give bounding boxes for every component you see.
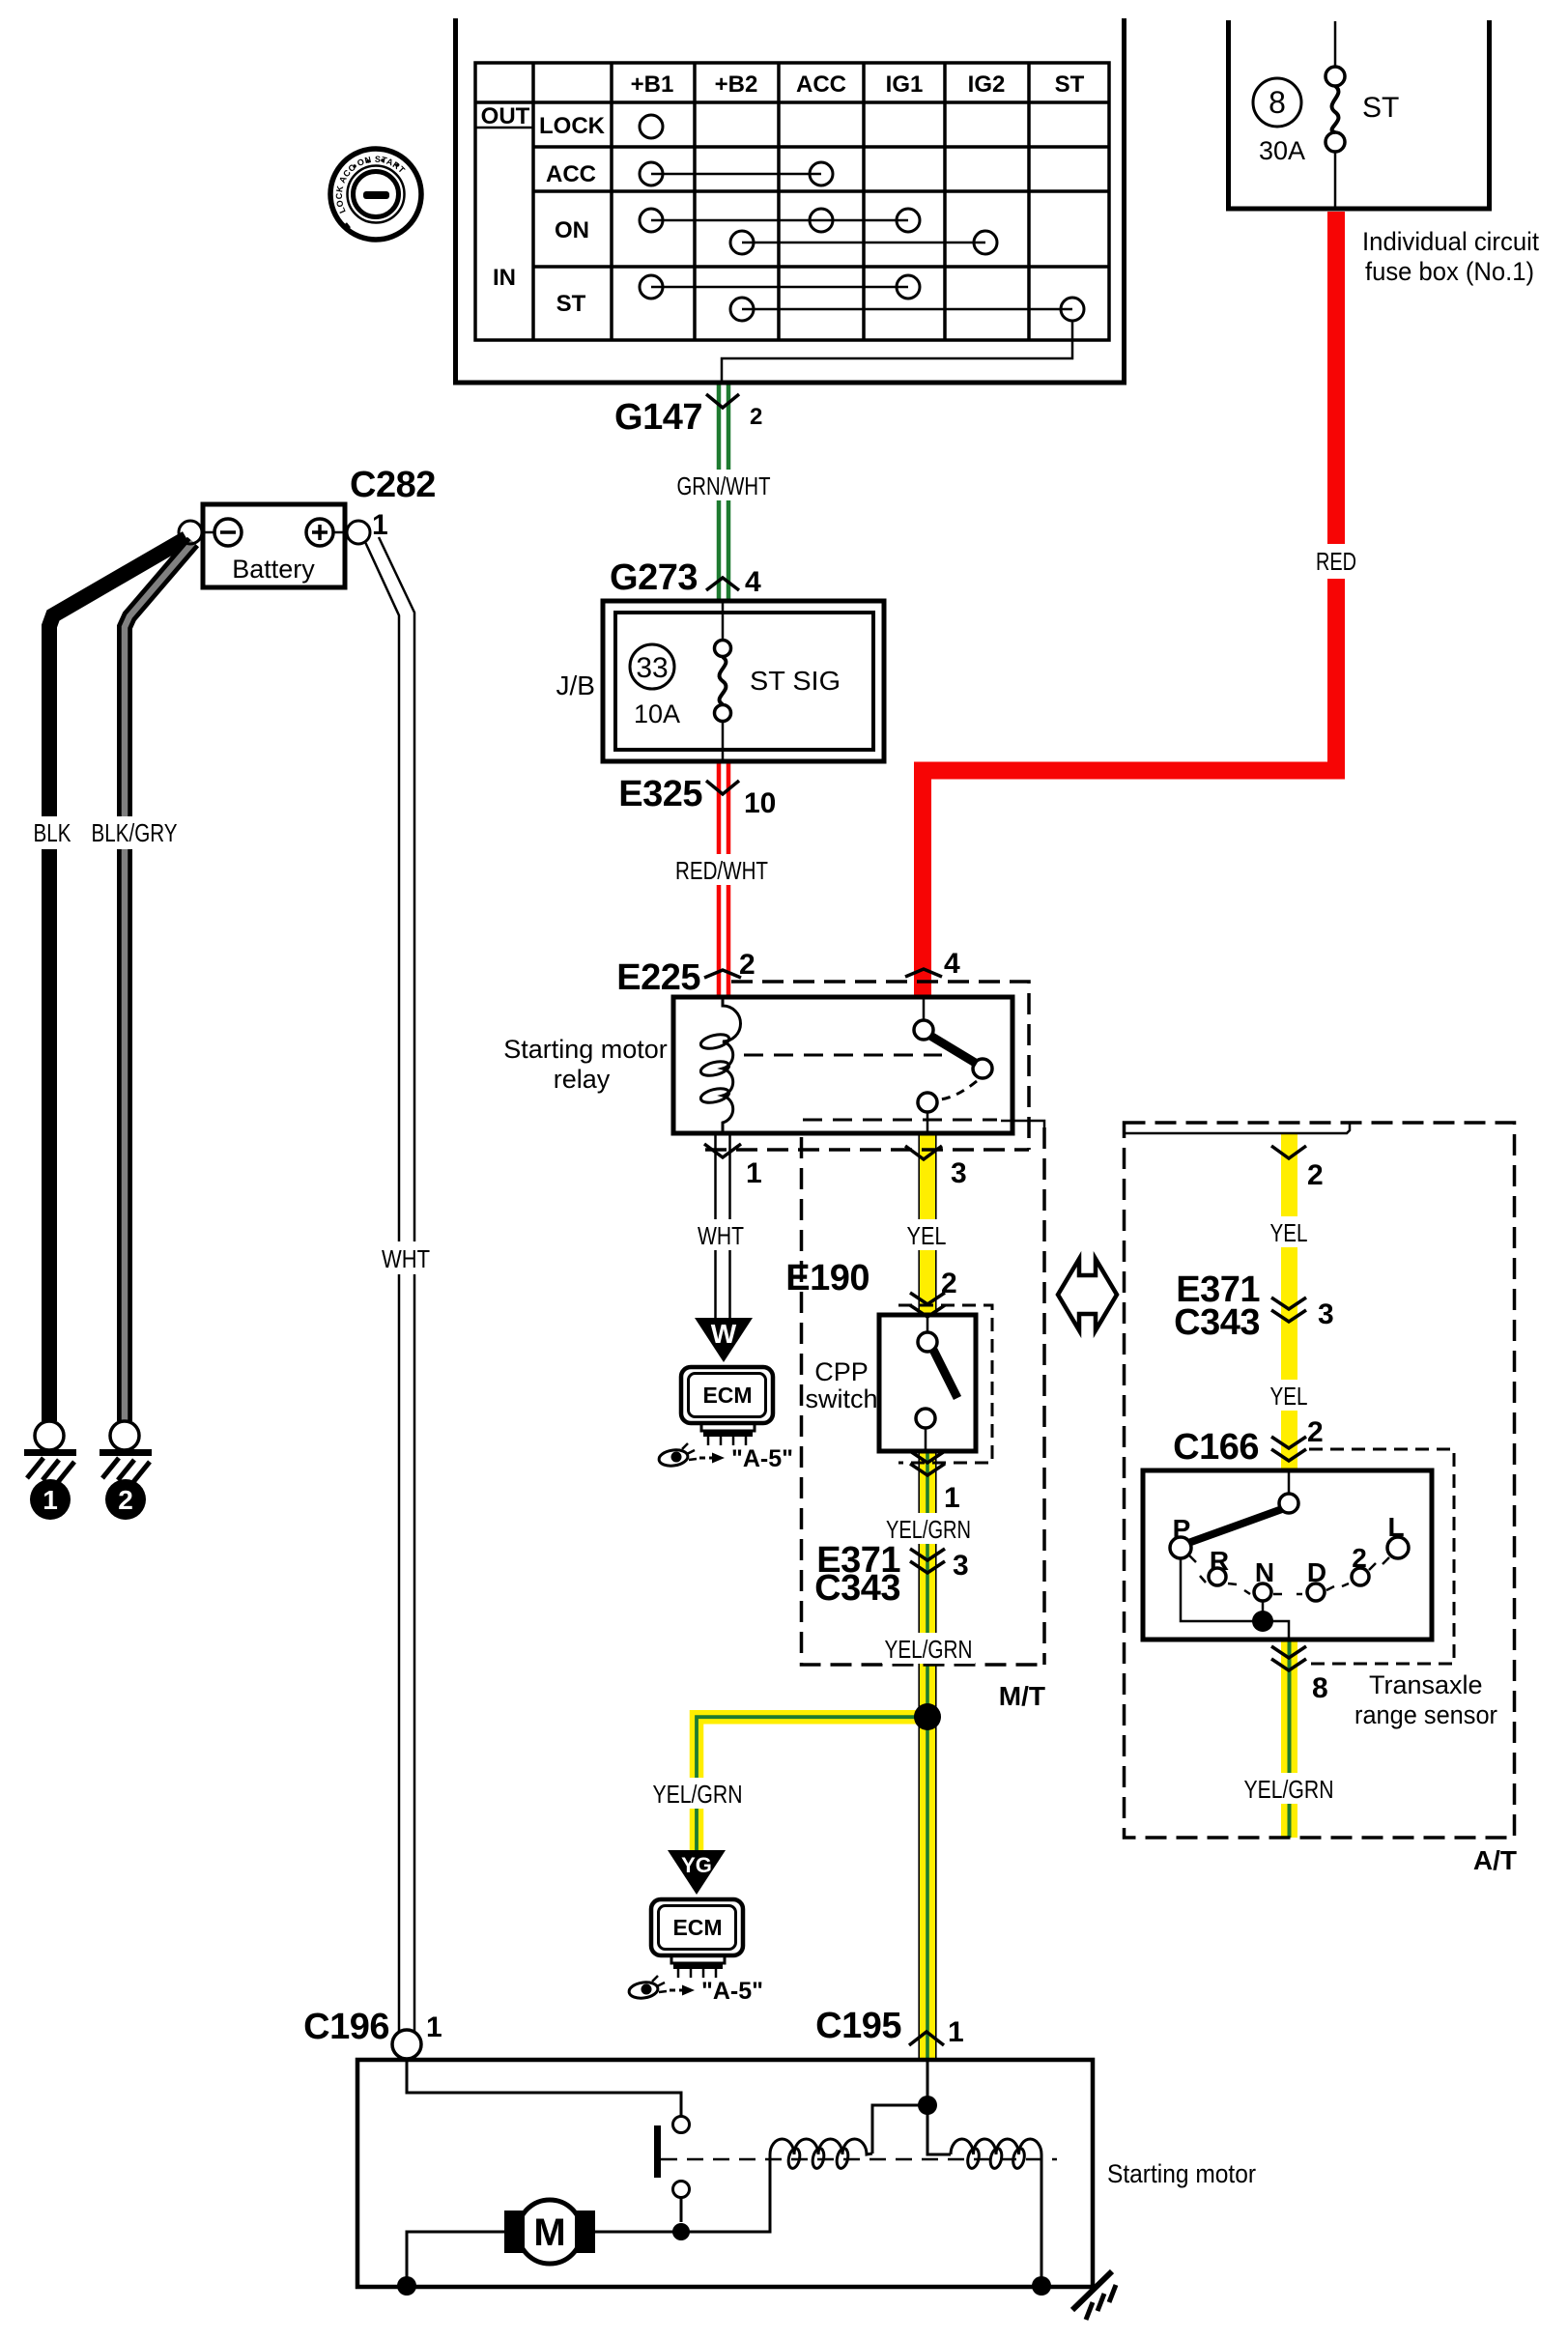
connector pin 2 (A/T top) [1271, 1146, 1324, 1191]
label RED/WHT [669, 854, 777, 885]
svg-text:M/T: M/T [999, 1681, 1045, 1711]
connector C195 pin 1 [815, 2006, 964, 2048]
svg-text:Individual circuit: Individual circuit [1362, 227, 1539, 256]
label YEL (A/T lower) [1262, 1380, 1318, 1411]
connector E190 pin 2 [785, 1258, 956, 1317]
svg-text:ON: ON [555, 217, 589, 243]
wire C196 into solenoid contact [407, 2059, 681, 2117]
svg-text:C282: C282 [350, 465, 436, 505]
svg-text:3: 3 [1318, 1298, 1334, 1330]
wire motor right to coils [595, 2154, 770, 2232]
connector E325 pin 10 [618, 774, 776, 819]
svg-text:IN: IN [493, 265, 516, 291]
svg-text:YEL/GRN: YEL/GRN [653, 1780, 743, 1809]
svg-text:YEL/GRN: YEL/GRN [1244, 1775, 1334, 1804]
wire pull-in coil to junction [872, 2105, 927, 2154]
relay switch contacts [914, 997, 992, 1133]
contact circles ACC row [640, 162, 663, 185]
svg-text:IG1: IG1 [886, 71, 924, 98]
svg-text:1: 1 [372, 509, 388, 541]
svg-text:33: 33 [636, 652, 668, 684]
svg-text:R: R [1210, 1546, 1229, 1576]
label YEL (A/T) [1262, 1216, 1318, 1247]
label WHT [693, 1219, 751, 1250]
label YEL (M/T) [899, 1219, 955, 1250]
contact link lines [651, 174, 1072, 309]
wire YEL/GRN (CPP switch to junction to C195) [919, 1452, 936, 2060]
eye A-5 reference (upper) [658, 1443, 793, 1472]
solenoid upper contact [673, 2117, 690, 2133]
svg-text:OUT: OUT [481, 103, 530, 129]
svg-text:ECM: ECM [702, 1383, 752, 1408]
svg-text:RED: RED [1316, 547, 1356, 576]
svg-text:2: 2 [1352, 1543, 1367, 1573]
svg-text:2: 2 [750, 404, 762, 430]
connector pin 8 [1271, 1646, 1328, 1704]
svg-text:"A-5": "A-5" [701, 1978, 763, 2005]
arrow YG to ECM [668, 1850, 726, 1895]
svg-text:2: 2 [1307, 1159, 1324, 1191]
svg-text:C195: C195 [815, 2006, 901, 2046]
svg-text:WHT: WHT [698, 1221, 744, 1250]
table row labels [481, 103, 606, 317]
ground 2 [100, 1421, 152, 1520]
svg-text:J/B: J/B [556, 670, 595, 700]
svg-text:ST: ST [556, 291, 586, 317]
svg-text:YEL/GRN: YEL/GRN [885, 1635, 973, 1664]
svg-text:D: D [1307, 1557, 1326, 1587]
connector C196 pin 1 [303, 2007, 442, 2059]
arrow W to ECM [695, 1318, 753, 1362]
ignition key cylinder symbol [330, 149, 421, 240]
wire hold-in coil to ground bus [1041, 2154, 1043, 2286]
relay internal dashed link [744, 1054, 942, 1057]
pull-in coil [770, 2139, 872, 2169]
double arrow symbol M/T A/T [1058, 1259, 1117, 1330]
wire YEL (relay pin 3 to CPP switch) [919, 1133, 936, 1315]
eye A-5 reference (lower) [628, 1976, 763, 2005]
connector G273 pin 4 [610, 557, 761, 598]
svg-text:30A: 30A [1259, 136, 1305, 165]
svg-text:YEL: YEL [1270, 1218, 1308, 1247]
fuse 8 30A ST [1253, 21, 1399, 209]
wire WHT relay pin 1 to ECM [716, 1133, 730, 1318]
sensor internal wiring [1181, 1558, 1289, 1640]
svg-text:G147: G147 [614, 397, 702, 438]
svg-text:8: 8 [1269, 85, 1286, 120]
svg-text:YEL: YEL [1270, 1382, 1308, 1411]
E190 connector dashed boundary [898, 1305, 992, 1463]
wire RED/WHT (E325 to relay pin 2) [719, 761, 728, 997]
svg-text:2: 2 [739, 949, 755, 981]
hold-in coil [951, 2139, 1041, 2169]
junction dot bottom left [397, 2276, 416, 2296]
svg-text:GRN/WHT: GRN/WHT [677, 471, 771, 500]
contact circles ON row [640, 209, 663, 232]
wire entry line (A/T top) [1124, 1123, 1350, 1133]
svg-text:E325: E325 [618, 774, 702, 814]
svg-text:fuse box (No.1): fuse box (No.1) [1365, 257, 1534, 286]
svg-text:W: W [711, 1319, 737, 1349]
label WHT (battery wire) [377, 1241, 437, 1274]
svg-text:1: 1 [746, 1157, 762, 1189]
svg-text:ST SIG: ST SIG [750, 666, 841, 696]
svg-text:YEL: YEL [907, 1221, 947, 1250]
svg-text:+B1: +B1 [631, 71, 674, 98]
svg-text:C196: C196 [303, 2007, 389, 2047]
label YEL/GRN (M/T lower) [882, 1633, 975, 1664]
A/T dashed box [1125, 1123, 1515, 1838]
solenoid dashed link [661, 2158, 1057, 2161]
wire motor left to ground bus [407, 2232, 504, 2286]
label BLK [28, 816, 76, 849]
svg-text:C343: C343 [1174, 1302, 1260, 1343]
wire YEL (A/T box to transaxle range sensor) [1281, 1133, 1297, 1470]
ignition switch assembly box [453, 18, 1126, 383]
starting motor box [357, 2060, 1093, 2287]
junction dot C195 [918, 2096, 937, 2115]
ground 1 [24, 1421, 76, 1520]
label BLK/GRY [85, 816, 184, 849]
svg-text:E225: E225 [616, 957, 700, 998]
wire YEL/GRN branch (junction to YG arrow) [697, 1717, 927, 1850]
svg-text:ACC: ACC [796, 71, 846, 98]
wire WHT (battery positive to C196) [365, 537, 414, 2031]
wire junction to hold-in coil [927, 2105, 951, 2154]
svg-text:4: 4 [944, 948, 960, 980]
svg-text:Starting motor: Starting motor [1107, 2159, 1256, 2188]
M/T dashed box [802, 1127, 1045, 1665]
svg-text:BLK: BLK [34, 818, 72, 847]
label GRN/WHT [670, 470, 778, 500]
sensor selector contacts [1170, 1470, 1409, 1601]
solenoid plunger bar [654, 2125, 661, 2178]
svg-text:Battery: Battery [232, 555, 315, 584]
svg-text:8: 8 [1312, 1672, 1328, 1704]
junction dot bottom right [1032, 2276, 1051, 2296]
svg-text:3: 3 [953, 1550, 969, 1582]
svg-text:4: 4 [745, 566, 761, 598]
connector E371 C343 pin 3 (M/T) [814, 1540, 969, 1609]
svg-text:A/T: A/T [1473, 1845, 1517, 1875]
svg-text:Starting motor: Starting motor [503, 1035, 668, 1064]
svg-text:LOCK: LOCK [539, 113, 606, 139]
svg-text:1: 1 [944, 1482, 960, 1514]
svg-text:2: 2 [1307, 1416, 1324, 1448]
svg-text:1: 1 [948, 2016, 964, 2048]
svg-text:10: 10 [744, 787, 776, 819]
svg-text:RED/WHT: RED/WHT [675, 856, 768, 885]
relay pins 1 and 3 [704, 1144, 1029, 1189]
svg-text:2: 2 [118, 1485, 133, 1515]
table column headers [631, 71, 1085, 98]
sensor position labels [1173, 1512, 1405, 1587]
svg-text:E190: E190 [785, 1258, 870, 1298]
OUT cell underline [475, 127, 533, 129]
ground (starting motor) [1072, 2271, 1116, 2320]
svg-text:Transaxle: Transaxle [1369, 1670, 1483, 1699]
svg-text:"A-5": "A-5" [731, 1445, 793, 1472]
svg-text:3: 3 [951, 1157, 967, 1189]
svg-text:C343: C343 [814, 1568, 900, 1609]
wire GRN/WHT (G147 to J/B) [719, 385, 728, 601]
CPP switch [879, 1315, 976, 1452]
starting motor relay box [673, 997, 1012, 1133]
svg-text:CPP: CPP [814, 1357, 869, 1386]
svg-text:switch: switch [805, 1384, 877, 1413]
relay coil [699, 997, 741, 1133]
relay lower connector dashed boundary [803, 1119, 997, 1122]
svg-text:P: P [1173, 1514, 1191, 1544]
solenoid lower contact [673, 2182, 690, 2198]
wire link to A/T circuit [1001, 1121, 1044, 1127]
label YEL/GRN (branch) [649, 1778, 746, 1809]
individual circuit fuse box No.1 [1226, 20, 1492, 209]
wire C195 into box [927, 2060, 929, 2105]
connector G147 pin 2 [614, 394, 762, 438]
connector C166 pin 2 [1173, 1416, 1324, 1468]
svg-text:IG2: IG2 [968, 71, 1006, 98]
contact circles LOCK row [640, 115, 663, 138]
svg-text:10A: 10A [634, 699, 680, 728]
svg-text:ECM: ECM [672, 1915, 722, 1940]
svg-text:N: N [1255, 1557, 1274, 1587]
junction dot YEL/GRN [914, 1703, 941, 1730]
label YEL/GRN (M/T upper) [882, 1513, 975, 1544]
junction block J/B box [603, 601, 884, 761]
wire BLK/GRY (battery negative to ground 2) [125, 542, 193, 1421]
ECM module (upper) [681, 1367, 773, 1445]
svg-text:ST: ST [1362, 92, 1399, 124]
svg-text:1: 1 [426, 2011, 442, 2043]
battery [179, 504, 370, 587]
label YEL/GRN (A/T) [1242, 1773, 1335, 1804]
svg-text:L: L [1387, 1512, 1404, 1542]
svg-text:M: M [533, 2211, 565, 2254]
svg-text:BLK/GRY: BLK/GRY [92, 818, 178, 847]
svg-text:range sensor: range sensor [1354, 1700, 1497, 1729]
contact circles ST row [640, 275, 663, 299]
svg-text:+B2: +B2 [715, 71, 758, 98]
wire ST output inside switch box [722, 321, 1072, 385]
svg-text:YG: YG [681, 1853, 712, 1877]
svg-text:WHT: WHT [382, 1244, 430, 1273]
svg-text:relay: relay [554, 1065, 611, 1094]
svg-text:G273: G273 [610, 557, 698, 598]
transaxle range sensor box [1143, 1470, 1432, 1640]
svg-text:ACC: ACC [546, 161, 596, 187]
svg-text:C166: C166 [1173, 1427, 1259, 1468]
wire BLK (battery negative to ground 1) [49, 538, 186, 1421]
connector E225 pins 2 and 4 [616, 948, 1029, 1150]
junction dot at solenoid contact [672, 2223, 690, 2240]
connector E371 C343 pin 3 (A/T) [1174, 1269, 1334, 1343]
ignition switch contact table frame [475, 63, 1109, 340]
fuse 33 10A ST SIG [630, 603, 841, 761]
ECM module (lower) [651, 1899, 743, 1978]
svg-text:1: 1 [43, 1485, 58, 1515]
CPP pin 1 chevrons [910, 1451, 960, 1514]
svg-text:ST: ST [1055, 71, 1085, 98]
wire YEL/GRN (transaxle range sensor to A/T bottom) [1281, 1640, 1297, 1838]
wire RED (fuse box to relay pin 4) [923, 212, 1336, 997]
label RED on red wire [1310, 544, 1362, 579]
C166 connector dashed boundary [1309, 1449, 1454, 1664]
motor M [504, 2200, 595, 2264]
